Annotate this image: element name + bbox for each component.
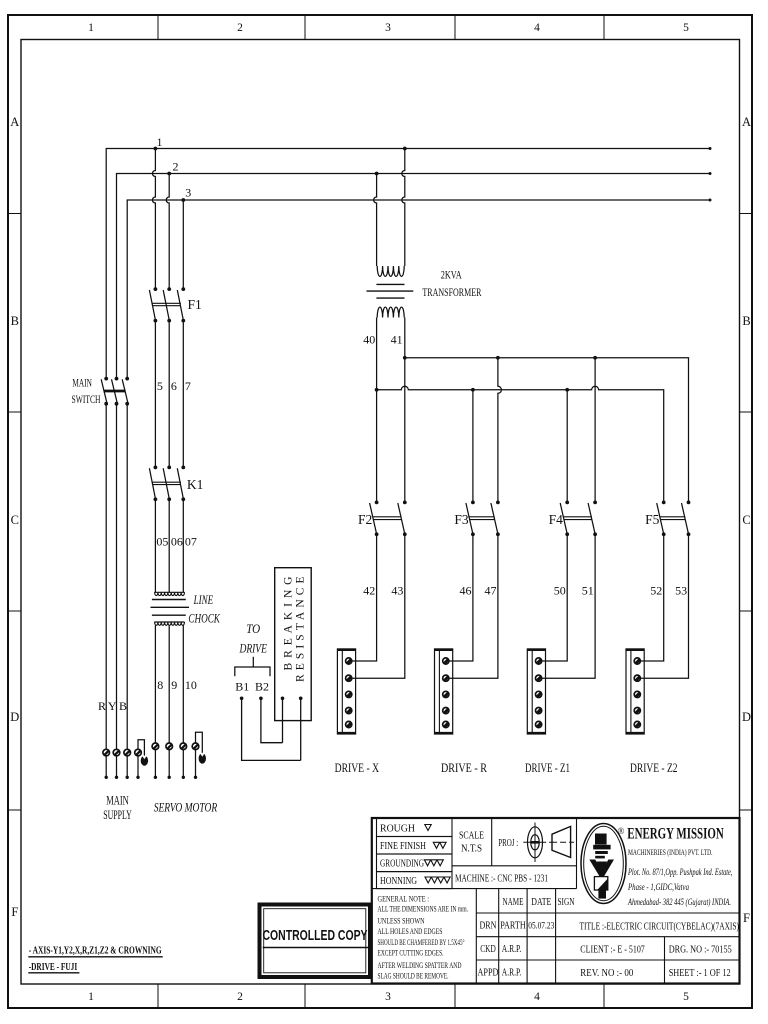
proj cone symbol	[549, 826, 574, 857]
stamp underline	[263, 947, 369, 949]
svg-text:A.R.P.: A.R.P.	[502, 968, 522, 979]
svg-text:8: 8	[157, 678, 163, 692]
supply earth pigtail with terminal clamp	[135, 740, 145, 776]
svg-text:MAIN: MAIN	[106, 793, 129, 808]
svg-text:2KVA: 2KVA	[441, 268, 462, 282]
proj first-angle target symbol	[523, 823, 546, 863]
svg-text:EXCEPT CUTTING EDGES.: EXCEPT CUTTING EDGES.	[378, 949, 444, 958]
svg-text:K1: K1	[187, 477, 204, 492]
svg-text:CONTROLLED COPY: CONTROLLED COPY	[263, 928, 368, 944]
svg-text:SUPPLY: SUPPLY	[103, 807, 132, 822]
wire rail B drop to F3 left	[472, 390, 474, 503]
svg-text:DRIVE - X: DRIVE - X	[335, 761, 380, 775]
bracket B1 B2	[235, 667, 270, 676]
wire F3 right to DRIVE-R terminal 2	[449, 534, 498, 678]
svg-text:3: 3	[385, 22, 391, 34]
svg-text:B2: B2	[255, 680, 269, 694]
wire F2 right to DRIVE-X terminal 2	[352, 534, 405, 678]
svg-text:10: 10	[185, 678, 197, 692]
svg-text:REV. NO :- 00: REV. NO :- 00	[580, 968, 633, 979]
wire F2 left to DRIVE-X terminal 1	[352, 534, 377, 661]
wire drop bus2 to F1 pole2 (hop over bus3)	[166, 174, 169, 290]
svg-text:05: 05	[156, 535, 168, 549]
name table lines	[476, 889, 555, 984]
wire B1 to resistor right terminal	[242, 698, 301, 760]
wire bus line 2	[117, 174, 711, 379]
resistor BREAKING RESISTANCE box	[275, 568, 312, 721]
wire bus line 3	[127, 200, 710, 379]
svg-text:53: 53	[675, 584, 687, 598]
terminal clamp servo W	[180, 743, 187, 750]
svg-text:50: 50	[554, 584, 566, 598]
switch MAIN SWITCH (3-pole)	[101, 379, 128, 403]
wire F5 right to DRIVE-Z2 terminal 2	[641, 534, 689, 678]
svg-text:R: R	[98, 699, 106, 713]
svg-text:GROUNDING: GROUNDING	[380, 859, 424, 870]
svg-text:F: F	[743, 911, 750, 925]
node supply line ends	[105, 776, 140, 779]
wire 404.8 down from rail A to F2 right	[404, 358, 406, 503]
svg-text:LINE: LINE	[193, 592, 213, 607]
client/rev row divider	[664, 937, 666, 984]
svg-text:B: B	[119, 699, 127, 713]
svg-text:1: 1	[157, 135, 163, 149]
svg-text:C: C	[742, 513, 750, 527]
terminal clamp R	[103, 749, 110, 756]
svg-text:DRN: DRN	[480, 921, 497, 932]
terminal block DRIVE-Z1	[527, 649, 545, 734]
breaker F3 (2-pole)	[466, 503, 498, 534]
svg-text:CLIENT :- E - 5107: CLIENT :- E - 5107	[580, 945, 645, 956]
terminal block DRIVE-Z2	[626, 649, 644, 734]
node B1	[240, 697, 244, 701]
svg-text:C: C	[11, 513, 19, 527]
svg-text:4: 4	[534, 991, 540, 1003]
svg-text:APPD: APPD	[478, 968, 499, 979]
svg-text:TRANSFORMER: TRANSFORMER	[422, 285, 481, 299]
wire TO DRIVE stub	[252, 657, 254, 667]
svg-text:5: 5	[683, 991, 689, 1003]
servo earth pigtail with terminal clamp	[192, 732, 202, 776]
svg-text:SIGN: SIGN	[558, 897, 575, 908]
wire F1 to K1 (3 lines)	[155, 321, 183, 468]
svg-text:ALL THE DIMENSIONS ARE IN mm.: ALL THE DIMENSIONS ARE IN mm.	[378, 905, 469, 914]
svg-text:GENERAL NOTE :: GENERAL NOTE :	[378, 895, 430, 904]
node resistor terminal right	[299, 697, 303, 701]
svg-text:F: F	[11, 905, 18, 919]
contactor K1 (3-pole)	[149, 468, 183, 498]
wire F4 left to DRIVE-Z1 terminal 1	[542, 534, 567, 661]
node bus3 end	[709, 199, 712, 202]
node resistor terminal left	[281, 697, 285, 701]
breaker F5 (2-pole)	[657, 503, 689, 534]
svg-text:47: 47	[485, 584, 497, 598]
svg-text:®: ®	[618, 826, 625, 836]
svg-text:ALL HOLES AND EDGES: ALL HOLES AND EDGES	[378, 927, 443, 936]
svg-text:07: 07	[185, 535, 197, 549]
terminal clamp servo V	[166, 743, 173, 750]
svg-text:SCALE: SCALE	[459, 831, 484, 842]
finish symbol box ROUGH	[377, 818, 453, 837]
terminal clamp Y	[113, 749, 120, 756]
wire F4 right to DRIVE-Z1 terminal 2	[542, 534, 595, 678]
wire drop bus2 to transformer left (hop over bus3)	[374, 174, 377, 267]
title block outer frame	[372, 818, 740, 984]
stamp CONTROLLED COPY box	[260, 905, 371, 978]
finish symbol box HONNING	[377, 872, 453, 889]
svg-text:DATE: DATE	[531, 897, 551, 908]
svg-text:RESISTANCE: RESISTANCE	[294, 577, 306, 683]
svg-text:ROUGH: ROUGH	[380, 823, 415, 834]
inductor LINE CHOCK	[151, 592, 190, 625]
svg-text:SWITCH: SWITCH	[72, 394, 101, 406]
svg-text:5: 5	[157, 379, 163, 393]
node bus2-F1 junction	[167, 172, 171, 176]
terminal block DRIVE-R	[435, 649, 453, 734]
svg-text:05.07.23: 05.07.23	[528, 922, 554, 932]
node bus1-F1 junction	[154, 147, 158, 151]
wire F3 left to DRIVE-R terminal 1	[449, 534, 473, 661]
wire rail B (from 40, bumps over 404.8 and 595.1)	[377, 386, 664, 502]
earth symbol servo	[199, 753, 206, 763]
breaker F2 (2-pole)	[370, 503, 405, 534]
wire rail A drop to F3 right (bulge over rail B)	[498, 358, 502, 503]
svg-text:Phase - 1,GIDC,Vatva: Phase - 1,GIDC,Vatva	[627, 882, 689, 892]
left band row dividers	[8, 214, 21, 811]
ENERGY MISSION logo monogram	[589, 834, 614, 899]
svg-text:Y: Y	[108, 699, 117, 713]
svg-text:SERVO MOTOR: SERVO MOTOR	[154, 800, 218, 815]
machine row bottom	[372, 888, 577, 890]
svg-text:SLAG SHOULD BE REMOVE.: SLAG SHOULD BE REMOVE.	[378, 972, 449, 981]
node bus2 end	[709, 172, 712, 175]
terminal block DRIVE-X	[337, 649, 355, 734]
svg-text:3: 3	[185, 186, 191, 200]
svg-text:DRIVE - Z2: DRIVE - Z2	[630, 761, 678, 775]
svg-text:7: 7	[185, 379, 191, 393]
transformer T1 2KVA	[367, 266, 414, 318]
node rail junctions	[375, 356, 597, 392]
svg-text:43: 43	[391, 584, 403, 598]
svg-text:B: B	[742, 314, 750, 328]
wire servo terminal tails	[155, 750, 183, 776]
svg-text:6: 6	[171, 379, 177, 393]
wire 376.6 down from rail B to F2 left	[376, 390, 378, 503]
svg-text:MAIN: MAIN	[72, 378, 92, 390]
wire supply terminal tails	[106, 756, 127, 776]
svg-text:DRIVE: DRIVE	[239, 641, 267, 656]
svg-text:Plot. No. 87/1,Opp. Pushpak In: Plot. No. 87/1,Opp. Pushpak Ind. Estate,	[627, 867, 732, 877]
proj cell right edge	[576, 818, 578, 889]
svg-text:42: 42	[363, 584, 375, 598]
svg-text:SHOULD BE CHAMFERED BY 1.5X45°: SHOULD BE CHAMFERED BY 1.5X45°	[378, 938, 465, 947]
svg-text:DRIVE - R: DRIVE - R	[441, 761, 488, 775]
svg-text:40: 40	[363, 333, 375, 347]
svg-text:41: 41	[391, 333, 403, 347]
svg-text:F5: F5	[645, 512, 660, 527]
top band column dividers	[158, 15, 604, 40]
wire B2 to resistor left terminal	[261, 698, 283, 742]
wire transformer secondary leads	[377, 318, 405, 390]
svg-text:1: 1	[88, 22, 94, 34]
earth symbol supply	[141, 756, 148, 766]
svg-text:B: B	[11, 314, 19, 328]
node bus3-F1 junction	[181, 198, 185, 202]
wire chock to servo terminals	[155, 626, 183, 743]
svg-text:Ahmedabad- 382 445 (Gujarat) I: Ahmedabad- 382 445 (Gujarat) INDIA.	[627, 897, 731, 907]
svg-text:CHOCK: CHOCK	[188, 611, 220, 626]
svg-text:FINE FINISH: FINE FINISH	[380, 841, 426, 852]
svg-text:2: 2	[237, 22, 243, 34]
svg-text:F4: F4	[549, 512, 564, 527]
zone number labels bottom	[88, 991, 689, 1003]
name table header	[503, 897, 575, 908]
MAIN CIRCUIT	[106, 149, 710, 379]
svg-text:CKD: CKD	[480, 944, 496, 955]
finish triangles honning	[425, 877, 450, 883]
wire drop bus1 to F1 pole1 (hops over bus2,bus3)	[152, 149, 155, 290]
scale cell	[452, 818, 577, 866]
svg-text:PARTH: PARTH	[500, 921, 526, 932]
node B2	[259, 697, 263, 701]
svg-text:A: A	[10, 115, 19, 129]
svg-text:AFTER WELDING SPATTER AND: AFTER WELDING SPATTER AND	[378, 961, 462, 970]
node bus2-transformer junction	[375, 172, 379, 176]
svg-text:D: D	[10, 710, 19, 724]
svg-text:HONNING: HONNING	[380, 876, 417, 887]
node bus1-transformer junction	[403, 147, 407, 151]
svg-text:51: 51	[582, 584, 594, 598]
fuse F1 (3-pole)	[149, 290, 183, 320]
svg-text:ENERGY MISSION: ENERGY MISSION	[627, 826, 724, 843]
svg-text:MACHINERIES (INDIA) PVT. LTD.: MACHINERIES (INDIA) PVT. LTD.	[628, 847, 713, 857]
svg-text:TITLE :-ELECTRIC CIRCUIT(CYBEL: TITLE :-ELECTRIC CIRCUIT(CYBELAC)(7AXIS)	[580, 921, 740, 933]
zone letter labels left	[10, 115, 19, 919]
zone letter labels right	[742, 115, 751, 925]
svg-text:DRIVE - Z1: DRIVE - Z1	[525, 761, 570, 775]
name table row APPD	[478, 968, 522, 979]
svg-text:5: 5	[683, 22, 689, 34]
svg-text:MACHINE :- CNC PBS - 1231: MACHINE :- CNC PBS - 1231	[455, 874, 548, 885]
svg-text:06: 06	[171, 535, 183, 549]
wire resistor right terminal down	[300, 698, 302, 760]
svg-text:1: 1	[88, 991, 94, 1003]
general note text	[378, 895, 469, 981]
wire drop bus3 to F1 pole3	[182, 200, 184, 289]
svg-text:9: 9	[171, 678, 177, 692]
svg-text:NAME: NAME	[503, 897, 524, 908]
wire rail A (from 41)	[405, 358, 689, 503]
bottom band column dividers	[158, 984, 604, 1008]
node bus1 end	[709, 147, 712, 150]
svg-text:46: 46	[460, 584, 472, 598]
wire bus line 1	[106, 149, 710, 379]
wire K1 to line chock	[155, 499, 183, 592]
svg-text:A: A	[742, 115, 751, 129]
svg-text:F2: F2	[358, 512, 372, 527]
TITLE BLOCK	[372, 818, 740, 984]
svg-text:TO: TO	[246, 621, 261, 636]
svg-text:DRG. NO :- 70155: DRG. NO :- 70155	[669, 945, 732, 956]
finish symbol box FINE FINISH	[377, 837, 453, 855]
svg-text:- AXIS-Y1,Y2,X,R,Z1,Z2 & CROWN: - AXIS-Y1,Y2,X,R,Z1,Z2 & CROWNING	[29, 945, 162, 956]
wire resistor left terminal down	[282, 698, 284, 742]
finish triangles grounding	[424, 860, 443, 866]
terminal clamp B	[124, 749, 131, 756]
name table row CKD	[480, 944, 521, 955]
svg-text:3: 3	[385, 991, 391, 1003]
right band row dividers	[740, 214, 753, 811]
wire F5 left to DRIVE-Z2 terminal 1	[641, 534, 664, 661]
svg-text:F3: F3	[454, 512, 469, 527]
svg-text:4: 4	[534, 22, 540, 34]
svg-text:D: D	[742, 710, 751, 724]
svg-text:A.R.P.: A.R.P.	[502, 944, 522, 955]
wire rail A drop to F4 right	[594, 358, 596, 503]
finish symbol box GROUNDING	[377, 854, 453, 872]
svg-text:PROJ :: PROJ :	[498, 838, 518, 849]
svg-text:B1: B1	[235, 680, 249, 694]
wire drop bus1 to transformer right (hops over bus2,bus3)	[402, 149, 405, 267]
finish triangle rough	[425, 825, 431, 831]
name table row DRN	[480, 921, 555, 932]
wire main switch to supply terminals	[106, 404, 127, 750]
node servo line ends	[154, 776, 198, 779]
svg-text:N.T.S: N.T.S	[461, 844, 482, 855]
svg-text:F1: F1	[188, 297, 202, 312]
ENERGY MISSION logo ellipse	[581, 824, 626, 904]
zone number labels top	[88, 22, 689, 34]
svg-text:UNLESS SHOWN: UNLESS SHOWN	[378, 917, 425, 926]
terminal clamp servo U	[152, 743, 159, 750]
breaker F4 (2-pole)	[560, 503, 595, 534]
svg-text:-DRIVE - FUJI: -DRIVE - FUJI	[29, 962, 77, 973]
svg-text:2: 2	[237, 991, 243, 1003]
svg-text:52: 52	[650, 584, 662, 598]
wire rail B drop to F4 left	[566, 390, 568, 503]
svg-text:SHEET :- 1 OF 12: SHEET :- 1 OF 12	[669, 968, 731, 979]
svg-text:2: 2	[173, 160, 179, 174]
finish triangles fine finish	[433, 842, 446, 848]
